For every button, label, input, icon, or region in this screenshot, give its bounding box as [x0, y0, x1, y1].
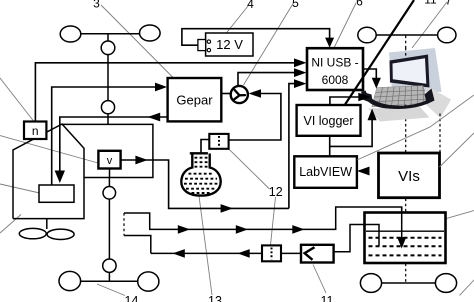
svg-text:14: 14 [125, 294, 139, 302]
svg-text:4: 4 [247, 0, 254, 11]
svg-text:5: 5 [292, 0, 299, 10]
svg-text:6: 6 [356, 0, 363, 9]
svg-text:VIs: VIs [398, 168, 420, 185]
svg-text:13: 13 [208, 294, 222, 302]
svg-text:11: 11 [321, 294, 334, 302]
svg-text:Gepar: Gepar [176, 93, 213, 108]
svg-text:7: 7 [445, 0, 452, 8]
svg-text:12 V: 12 V [216, 37, 243, 52]
svg-text:12: 12 [269, 185, 283, 199]
svg-text:n: n [32, 124, 39, 138]
svg-text:NI USB -: NI USB - [311, 56, 358, 70]
svg-text:v: v [107, 155, 113, 167]
svg-text:3: 3 [93, 0, 100, 11]
svg-text:6008: 6008 [322, 73, 349, 87]
svg-text:11: 11 [424, 0, 437, 7]
svg-text:LabVIEW: LabVIEW [299, 165, 352, 179]
svg-text:VI logger: VI logger [303, 114, 353, 128]
